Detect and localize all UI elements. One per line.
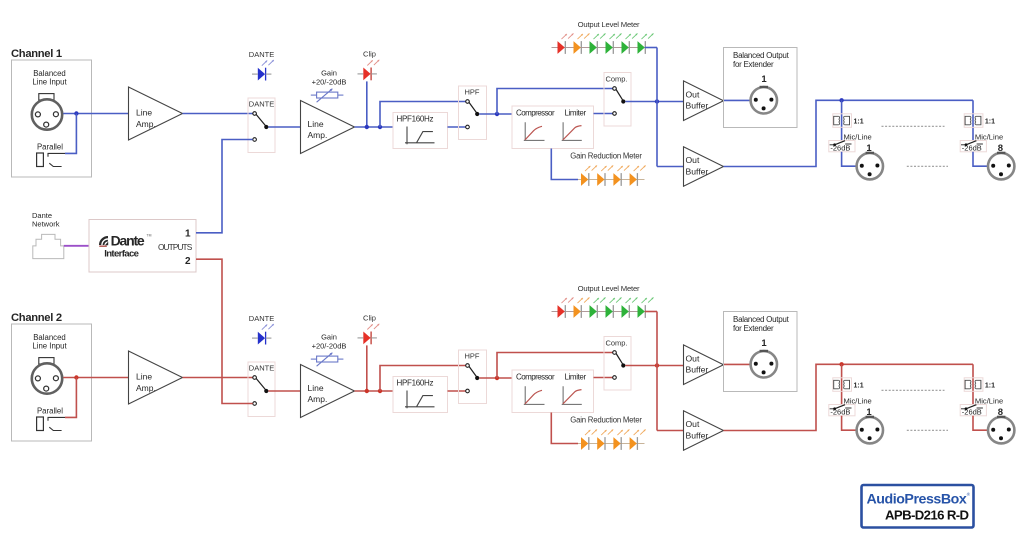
svg-text:1: 1 [185,229,191,240]
wire pad to XLR 8 [973,416,987,430]
svg-text:2: 2 [185,256,191,267]
svg-text:Parallel: Parallel [37,142,63,151]
dashed continuation lower [907,429,948,431]
switch Mic/Line + pad -26dB output 1 CH2 [829,405,855,417]
svg-text:Out: Out [686,419,700,429]
LED level meter 5 CH2 [622,297,638,318]
svg-text:Buffer: Buffer [686,430,709,440]
wire compressor to comp switch [594,377,613,379]
gain potentiometer VR CH1 [311,68,347,102]
compressor/limiter CH1 [512,106,594,149]
wire line amp 2 to HPF [355,126,394,128]
XLR male output 1 CH2 [857,417,883,444]
svg-text:Network: Network [32,220,60,229]
switch DANTE CH2 [248,362,275,417]
gain reduction meter CH2 [570,416,644,444]
wire meter to riser [645,311,657,313]
node input junction CH2 [74,375,78,379]
wire line amp to DANTE switch [183,113,253,115]
svg-text:Channel 1: Channel 1 [11,48,62,60]
wire comp bypass riser [497,89,613,115]
line amp A1 CH2 [129,351,183,404]
wire tap to transformer T1 [841,364,843,405]
wire comp switch to out buffers [625,365,683,367]
wire clip LED to node A [366,345,368,391]
svg-text:Gain: Gain [321,332,337,341]
svg-text:1:1: 1:1 [985,383,995,390]
logo AudioPressBox APB-D216 R-D [862,485,974,528]
XLR male output 1 CH1 [857,153,883,180]
switch HPF CH2 [459,350,487,404]
svg-text:Comp.: Comp. [605,338,627,347]
LED level meter 6 CH2 [638,297,654,318]
svg-text:HPF: HPF [465,351,480,360]
wire compressor to gain reduction meter [551,149,578,180]
wire HPF bypass riser [380,366,466,392]
LED level meter 3 CH2 [590,297,606,318]
compressor/limiter CH2 [512,370,594,413]
wire compressor to comp switch [594,113,613,115]
wire pad to XLR 8 [973,152,987,166]
wire dante output 2 to CH2 [196,259,253,403]
svg-text:Line: Line [308,119,324,129]
out buffer B1 CH2 [684,345,724,385]
svg-text:Interface: Interface [104,249,138,260]
LED gain reduction 4 CH2 [630,429,646,450]
svg-text:1: 1 [761,338,767,349]
LED level meter 6 CH1 [638,33,654,54]
wire buffer2 to output bus [724,100,974,166]
label Balanced Line Input CH2 [32,333,67,351]
node D CH2 [655,363,659,367]
svg-text:DANTE: DANTE [249,100,274,109]
wire bus end to transformer T8 [972,364,974,405]
LED Clip CH2 [358,314,380,345]
svg-text:HPF160Hz: HPF160Hz [397,378,434,387]
svg-text:Out: Out [686,89,700,99]
svg-text:Line: Line [308,383,324,393]
node output bus tap 1 CH2 [839,362,843,366]
svg-text:-26dB: -26dB [962,143,982,152]
wire tap to transformer T1 [841,100,843,141]
LED gain reduction 4 CH1 [630,165,646,186]
parallel jack CH1 [37,142,65,166]
svg-text:Output Level Meter: Output Level Meter [578,20,640,29]
svg-text:1:1: 1:1 [854,383,864,390]
switch DANTE CH1 [248,98,275,153]
balanced output for extender box CH2 [724,312,798,392]
LED level meter 2 CH2 [574,297,590,318]
LED gain reduction 3 CH1 [613,165,629,186]
LED gain reduction 2 CH2 [597,429,613,450]
wire HPF switch to compressor [479,113,512,115]
svg-text:Amp.: Amp. [308,394,328,404]
svg-text:Gain: Gain [321,68,337,77]
RJ45 Dante network jack [33,234,64,258]
svg-text:Amp.: Amp. [136,383,156,393]
transformer T1 1:1 CH1 [833,114,852,128]
svg-text:Amp.: Amp. [136,119,156,129]
wire junction to parallel jack [65,378,76,418]
wire HPF bypass riser [380,102,466,128]
wire compressor to gain reduction meter [551,413,578,444]
wire riser to buffer 2 [657,166,684,168]
wire main riser to meter and buffer 2 [656,48,658,167]
LED gain reduction 1 CH2 [581,429,597,450]
out buffer B2 CH1 [684,147,724,187]
label Balanced Line Input CH1 [32,69,67,87]
wire pad to XLR 1 [842,152,856,166]
svg-text:-26dB: -26dB [830,407,850,416]
wire buffer2 to output bus [724,364,974,430]
svg-text:Limiter: Limiter [565,372,587,381]
wire input to line amp [63,113,128,115]
svg-text:Limiter: Limiter [565,108,587,117]
line amp A1 CH1 [129,87,183,140]
svg-text:+20/-20dB: +20/-20dB [312,77,347,86]
LED level meter 1 CH1 [558,33,574,54]
node B CH1 [378,125,382,129]
node output bus tap 1 CH1 [839,98,843,102]
svg-text:Out: Out [686,155,700,165]
svg-text:Line Input: Line Input [32,342,67,351]
XLR male extender output CH1 [751,87,777,114]
svg-text:Line: Line [136,108,152,118]
svg-text:Dante: Dante [111,233,145,249]
svg-text:-26dB: -26dB [830,143,850,152]
switch HPF CH1 [459,86,487,140]
svg-text:TM: TM [147,234,152,238]
wire line amp to DANTE switch [183,377,253,379]
svg-text:+20/-20dB: +20/-20dB [312,341,347,350]
svg-text:Buffer: Buffer [686,166,709,176]
line amp A2 CH1 [301,101,355,154]
wire DANTE switch to line amp 2 [268,126,300,128]
output level meter CH1 [552,20,645,48]
wire DANTE switch to line amp 2 [268,390,300,392]
svg-text:DANTE: DANTE [249,50,274,59]
LED gain reduction 3 CH2 [613,429,629,450]
transformer T8 1:1 CH1 [964,114,983,128]
switch Comp CH2 [604,337,631,391]
node A CH1 [365,125,369,129]
wire HPF switch to compressor [479,377,512,379]
switch Mic/Line + pad -26dB output 8 CH2 [960,405,986,417]
label Dante Network [32,211,60,228]
wire bus end to transformer T8 [972,100,974,141]
wire comp bypass riser [497,353,613,379]
transformer T8 1:1 CH2 [964,378,983,392]
svg-text:Compressor: Compressor [516,108,555,117]
dashed continuation lower [907,165,948,167]
svg-text:Buffer: Buffer [686,101,709,111]
LED level meter 2 CH1 [574,33,590,54]
switch Mic/Line + pad -26dB output 8 CH1 [960,141,986,153]
XLR male output 8 CH2 [988,417,1014,444]
svg-text:Out: Out [686,353,700,363]
node A CH2 [365,389,369,393]
svg-text:Balanced Output: Balanced Output [733,51,790,60]
line amp A2 CH2 [301,365,355,418]
svg-text:Gain Reduction Meter: Gain Reduction Meter [570,152,642,161]
svg-text:Output Level Meter: Output Level Meter [578,284,640,293]
svg-text:APB-D216 R-D: APB-D216 R-D [885,507,969,522]
channel 1 input box [12,60,92,177]
LED Clip CH1 [358,50,380,81]
XLR female input connector CH1 [32,94,62,130]
wire main riser to meter and buffer 2 [656,312,658,431]
channel 2 input box [12,324,92,441]
svg-text:1:1: 1:1 [854,119,864,126]
XLR male output 8 CH1 [988,153,1014,180]
svg-text:1:1: 1:1 [985,119,995,126]
LED DANTE indicator CH1 [249,50,274,81]
wire HPF160 out [448,390,466,392]
output level meter CH2 [552,284,645,312]
svg-text:Clip: Clip [363,50,376,59]
svg-text:OUTPUTS: OUTPUTS [158,242,193,252]
gain potentiometer VR CH2 [311,332,347,366]
svg-text:Buffer: Buffer [686,365,709,375]
XLR female input connector CH2 [32,358,62,394]
switch Comp CH1 [604,73,631,127]
filter HPF160Hz CH2 [393,377,448,413]
svg-text:Channel 2: Channel 2 [11,312,62,324]
wire comp switch to out buffers [625,101,683,103]
svg-text:1: 1 [761,74,767,85]
wire buffer1 to extender XLR [724,99,751,101]
transformer T1 1:1 CH2 [833,378,852,392]
LED level meter 5 CH1 [622,33,638,54]
wire pad to XLR 1 [842,416,856,430]
LED level meter 4 CH1 [606,33,622,54]
svg-text:for Extender: for Extender [733,60,774,69]
wire junction to parallel jack [65,114,76,154]
dashed continuation upper [882,125,945,127]
LED level meter 4 CH2 [606,297,622,318]
svg-text:-26dB: -26dB [962,407,982,416]
XLR male extender output CH2 [751,351,777,378]
node B CH2 [378,389,382,393]
wire line amp 2 to HPF [355,390,394,392]
svg-text:Amp.: Amp. [308,130,328,140]
switch Mic/Line + pad -26dB output 1 CH1 [829,141,855,153]
svg-text:Compressor: Compressor [516,372,555,381]
out buffer B2 CH2 [684,411,724,451]
out buffer B1 CH1 [684,81,724,121]
node C CH1 [495,112,499,116]
parallel jack CH2 [37,406,65,430]
svg-text:DANTE: DANTE [249,364,274,373]
node D CH1 [655,99,659,103]
wire meter to riser [645,47,657,49]
dante interface U1 [89,220,196,273]
wire riser to buffer 2 [657,430,684,432]
wire clip LED to node A [366,81,368,127]
wire dante network to interface [64,245,89,247]
svg-text:AudioPressBox: AudioPressBox [867,492,967,508]
svg-text:Line: Line [136,372,152,382]
LED gain reduction 2 CH1 [597,165,613,186]
filter HPF160Hz CH1 [393,113,448,149]
wire buffer1 to extender XLR [724,363,751,365]
wire HPF160 out [448,126,466,128]
svg-text:Line Input: Line Input [32,78,67,87]
svg-text:DANTE: DANTE [249,314,274,323]
svg-text:Comp.: Comp. [605,74,627,83]
LED level meter 3 CH1 [590,33,606,54]
wire input to line amp [63,377,128,379]
LED gain reduction 1 CH1 [581,165,597,186]
svg-text:HPF: HPF [465,87,480,96]
node input junction CH1 [74,111,78,115]
svg-text:Clip: Clip [363,314,376,323]
svg-text:Parallel: Parallel [37,406,63,415]
svg-text:HPF160Hz: HPF160Hz [397,114,434,123]
wire dante output 1 to CH1 [196,140,253,233]
LED level meter 1 CH2 [558,297,574,318]
dashed continuation upper [882,389,945,391]
svg-text:Balanced Output: Balanced Output [733,315,790,324]
balanced output for extender box CH1 [724,48,798,128]
svg-text:Gain Reduction Meter: Gain Reduction Meter [570,416,642,425]
LED DANTE indicator CH2 [249,314,274,345]
node C CH2 [495,376,499,380]
gain reduction meter CH1 [570,152,644,180]
svg-text:for Extender: for Extender [733,324,774,333]
